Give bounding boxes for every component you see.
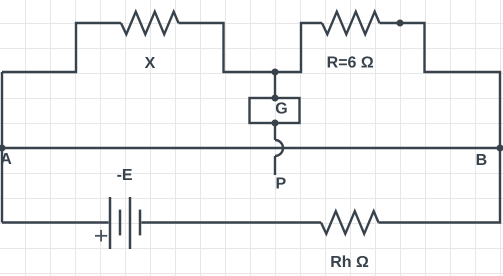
svg-text:A: A [0,151,12,168]
wire: galvanometer bottom to jockey hop [274,123,276,140]
svg-text:Rh Ω: Rh Ω [330,254,369,271]
junction dot: node B [497,145,503,152]
junction dot: on R=6Ω right lead [397,20,404,27]
svg-text:R=6 Ω: R=6 Ω [327,55,374,72]
svg-text:G: G [275,101,287,118]
battery + polarity mark [95,230,107,242]
wire: resistor X right lead down to middle junction [179,23,277,72]
resistor R1 R=6Ω (zigzag) [322,12,380,35]
junction dot: node A [0,145,6,152]
wire: left vertical from X branch through A to battery loop [1,72,3,223]
battery E plates [110,197,140,249]
wire: bridge wire A to B [2,147,500,149]
rheostat Rh (zigzag) [321,211,379,234]
junction dot: galvanometer bottom terminal [272,120,279,127]
wire: rheostat to node B bottom [379,148,501,223]
wire: battery to rheostat [142,221,322,223]
jockey contact hop over bridge wire [275,140,283,156]
wire: middle junction down to galvanometer [274,72,276,98]
wire: middle junction up to resistor R left lead [274,23,322,72]
galvanometer U1 box [250,98,300,123]
junction dot: middle node at top wire [272,69,279,76]
junction dot: galvanometer top terminal [272,95,279,102]
wire: resistor R right lead to node B vertical [380,23,501,148]
svg-text:-E: -E [117,167,133,184]
resistor X (zigzag) [121,12,179,35]
svg-text:X: X [145,55,156,72]
svg-text:P: P [275,175,286,192]
wire: jockey stub below bridge wire [274,156,276,175]
svg-text:B: B [476,152,488,169]
wire: node A up-branch to resistor X left lead [2,23,121,72]
wire: bottom loop left (A branch to battery) [2,221,109,223]
